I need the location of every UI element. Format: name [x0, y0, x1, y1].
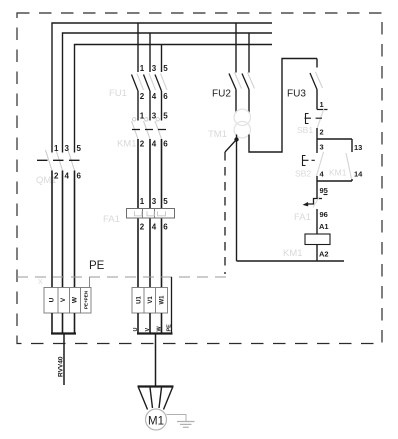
- wire TM1 secondary left / control return: [237, 135, 345, 262]
- wire QM1 to terminal block XT1: [52, 171, 75, 288]
- svg-text:1: 1: [54, 144, 59, 153]
- svg-text:PE+PEN: PE+PEN: [84, 290, 89, 309]
- cable XT2 to motor: [133, 313, 173, 387]
- svg-text:1: 1: [140, 64, 145, 73]
- svg-text:6: 6: [163, 140, 168, 149]
- svg-text:A1: A1: [319, 222, 329, 231]
- cable XT1 outgoing: [51, 313, 76, 385]
- pushbutton SB1 (stop): [297, 109, 328, 140]
- svg-text:4: 4: [65, 172, 70, 181]
- svg-text:4: 4: [152, 223, 157, 232]
- svg-text:FA1: FA1: [294, 212, 311, 223]
- svg-text:6: 6: [77, 172, 82, 181]
- svg-text:V1: V1: [148, 296, 154, 304]
- svg-text:1: 1: [140, 112, 145, 121]
- svg-text:X: X: [38, 279, 43, 286]
- svg-text:TM1: TM1: [208, 129, 227, 140]
- wire TM1 secondary right to FU3: [249, 59, 317, 153]
- svg-text:3: 3: [152, 197, 157, 206]
- wire FA1 to terminal block XT2: [138, 219, 162, 288]
- svg-text:4: 4: [152, 140, 157, 149]
- coil KM1: [283, 222, 330, 261]
- svg-text:2: 2: [140, 223, 145, 232]
- svg-text:KM1: KM1: [283, 248, 303, 259]
- svg-text:KM1: KM1: [117, 139, 137, 150]
- ground: [167, 415, 195, 428]
- svg-text:V: V: [145, 328, 151, 332]
- svg-text:FU3: FU3: [287, 89, 306, 100]
- wire earth branch (dashed): [225, 140, 237, 275]
- svg-text:M1: M1: [148, 416, 164, 428]
- wire L1 bus: [52, 23, 272, 153]
- svg-text:5: 5: [163, 64, 168, 73]
- svg-text:FA1: FA1: [103, 214, 120, 225]
- transformer TM1: [208, 109, 251, 140]
- svg-text:3: 3: [152, 64, 157, 73]
- svg-text:W1: W1: [160, 295, 166, 305]
- svg-text:6: 6: [163, 92, 168, 101]
- contactor KM1 aux contact 13-14: [329, 139, 363, 181]
- wire L2 bus: [63, 33, 273, 153]
- svg-text:V: V: [60, 297, 67, 302]
- svg-text:2: 2: [320, 128, 324, 137]
- enclosure dashed border: [17, 13, 382, 344]
- svg-text:W: W: [156, 326, 162, 332]
- svg-text:1: 1: [320, 100, 324, 109]
- svg-text:W: W: [72, 296, 79, 303]
- wire branch to KM1 aux: [317, 138, 352, 140]
- wire FU1 to KM1: [138, 91, 162, 121]
- svg-text:PE: PE: [166, 324, 172, 332]
- svg-text:2: 2: [54, 172, 59, 181]
- svg-text:1: 1: [140, 197, 145, 206]
- switch QM1: [36, 144, 82, 186]
- svg-text:4: 4: [152, 92, 157, 101]
- terminal block XT1: [38, 279, 91, 313]
- contactor KM1 main contacts: [117, 112, 168, 150]
- svg-text:U: U: [49, 297, 56, 302]
- svg-text:13: 13: [354, 143, 362, 152]
- fuse FU2: [212, 23, 255, 113]
- svg-text:5: 5: [163, 112, 168, 121]
- svg-text:2: 2: [140, 140, 145, 149]
- svg-text:FU2: FU2: [212, 89, 231, 100]
- svg-text:FU1: FU1: [109, 88, 127, 99]
- terminal block XT2: [132, 288, 168, 314]
- motor M1: [138, 387, 174, 431]
- svg-text:A2: A2: [319, 250, 329, 259]
- svg-text:96: 96: [320, 210, 328, 219]
- svg-text:KM1: KM1: [329, 168, 347, 178]
- svg-text:6: 6: [163, 223, 168, 232]
- svg-text:SB1: SB1: [297, 125, 313, 135]
- wire PE drop to motor cable: [171, 277, 173, 334]
- svg-text:3: 3: [152, 112, 157, 121]
- wire merge branch: [317, 180, 352, 182]
- wire KM1 to FA1: [138, 139, 162, 209]
- fuse FU3: [287, 59, 324, 110]
- node junction dot: [234, 137, 238, 141]
- svg-text:2: 2: [140, 92, 145, 101]
- thermal contact FA1 95-96: [294, 181, 328, 234]
- svg-text:SB2: SB2: [295, 169, 311, 179]
- pushbutton SB2 (start): [295, 139, 325, 181]
- wire PE drop to XT1: [89, 277, 91, 288]
- svg-text:U1: U1: [137, 296, 143, 304]
- svg-text:PE: PE: [89, 260, 105, 272]
- svg-text:3: 3: [65, 144, 70, 153]
- wire L3 bus: [75, 45, 273, 153]
- PE bus (dashed): [17, 276, 227, 278]
- svg-text:14: 14: [354, 170, 363, 179]
- svg-text:95: 95: [320, 186, 328, 195]
- thermal overload relay FA1: [103, 197, 175, 232]
- svg-text:U: U: [133, 328, 139, 332]
- svg-text:RVV40: RVV40: [58, 356, 65, 377]
- svg-text:3: 3: [320, 143, 324, 152]
- svg-text:5: 5: [77, 144, 82, 153]
- svg-text:5: 5: [163, 197, 168, 206]
- fuse FU1: [109, 23, 168, 101]
